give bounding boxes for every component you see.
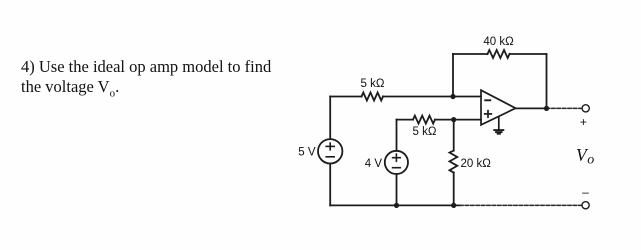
wire: non-inverting input wire right segment into op-amp — [435, 119, 481, 121]
problem statement text — [21, 57, 291, 103]
svg-text:Vo: Vo — [576, 145, 594, 168]
ground symbol on op-amp + input reference — [493, 117, 504, 134]
svg-text:4 V: 4 V — [365, 158, 383, 170]
output terminal top (open circle) — [582, 105, 589, 112]
wire: 5V source top lead — [329, 97, 331, 140]
resistor R3 40 kOhm (feedback) — [488, 50, 510, 58]
junction node: bottom rail at 20k — [451, 203, 456, 208]
wire: output node to terminal (faint/dashed) — [547, 107, 582, 109]
svg-text:+: + — [580, 115, 587, 129]
resistor R1 5 kOhm (top) — [362, 93, 383, 101]
svg-text:–: – — [582, 185, 589, 199]
wire: feedback right vertical down to output node — [546, 54, 548, 108]
junction node: inverting input — [450, 94, 455, 99]
svg-text:5 V: 5 V — [298, 147, 316, 159]
output terminal bottom (open circle) — [582, 202, 589, 209]
voltage source V1 5V circle — [318, 139, 342, 163]
wire: op-amp output to node — [516, 107, 547, 109]
wire: bottom rail faint segment to output terminal — [460, 204, 582, 206]
svg-text:5 kΩ: 5 kΩ — [361, 78, 385, 90]
svg-text:40 kΩ: 40 kΩ — [483, 36, 514, 48]
op-amp U1 triangle — [481, 90, 516, 125]
voltage source V2 4V circle — [385, 151, 408, 174]
wire: feedback top-right segment — [510, 53, 547, 55]
wire: inverting input wire left segment — [330, 96, 361, 98]
op-amp U1 inverting pin mark (-) — [484, 99, 491, 101]
junction node: output — [544, 106, 549, 111]
junction node: non-inverting input — [451, 117, 456, 122]
svg-text:5 kΩ: 5 kΩ — [413, 126, 437, 138]
junction node: bottom rail at 4V — [394, 203, 399, 208]
wire: inverting input wire right segment into op-amp — [383, 96, 481, 98]
svg-text:20 kΩ: 20 kΩ — [461, 158, 492, 170]
wire: bottom rail — [330, 204, 460, 206]
wire: 5V source bottom lead — [329, 164, 331, 206]
wire: 4V source top lead — [396, 120, 398, 151]
resistor R2 5 kOhm (middle) — [413, 116, 435, 124]
wire: feedback top-left segment — [453, 53, 488, 55]
wire: non-inverting input wire left segment — [397, 119, 414, 121]
wire: 4V source bottom lead — [396, 174, 398, 205]
resistor R4 20 kOhm (vertical) — [450, 151, 458, 173]
wire: 20k bottom lead — [453, 173, 455, 206]
wire: 20k top lead — [453, 120, 455, 151]
wire: feedback loop left vertical (inverting node up to 40k) — [452, 54, 454, 97]
op-amp U1 non-inverting pin mark (+) — [484, 110, 492, 118]
